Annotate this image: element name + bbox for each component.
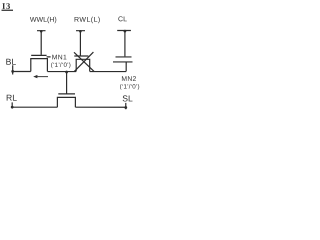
svg-text:RWL(L): RWL(L) xyxy=(74,17,101,24)
label leader to MN1 xyxy=(47,56,51,58)
svg-text:RL: RL xyxy=(6,93,17,103)
transistor (RWL) channel xyxy=(76,59,90,71)
write-current arrow head xyxy=(33,75,37,78)
write-current arrow shaft xyxy=(37,76,48,78)
svg-text:MN2: MN2 xyxy=(121,76,136,83)
wire WWL vertical xyxy=(40,31,42,55)
wire capacitor to storage node xyxy=(125,62,127,71)
figure label 13 underline xyxy=(2,9,13,11)
capacitor CL top plate xyxy=(116,56,132,58)
node storage/MN2 gate junction dot xyxy=(65,71,68,74)
terminal CL bar xyxy=(117,30,131,32)
node RL junction dot xyxy=(11,106,14,109)
wire RL horizontal xyxy=(12,106,57,108)
capacitor CL bottom plate xyxy=(113,61,132,63)
wire storage node left segment xyxy=(47,71,76,73)
wire CL vertical xyxy=(124,31,126,57)
terminal RWL bar xyxy=(76,30,85,32)
node SL junction dot xyxy=(124,106,127,109)
svg-text:SL: SL xyxy=(122,93,133,103)
wire BL horizontal xyxy=(13,71,31,73)
wire SL horizontal xyxy=(75,106,125,108)
svg-text:BL: BL xyxy=(6,57,17,67)
svg-text:MN1: MN1 xyxy=(52,54,67,61)
wire storage node right segment xyxy=(90,71,127,73)
transistor MN2 channel xyxy=(57,97,75,107)
terminal SL bar xyxy=(125,103,127,109)
node RWL junction dot xyxy=(79,30,82,33)
svg-text:I3: I3 xyxy=(2,1,11,11)
transistor MN1 channel xyxy=(31,59,48,72)
node BL junction dot xyxy=(11,70,14,73)
node CL junction dot xyxy=(124,30,127,33)
node WWL junction dot xyxy=(40,30,43,33)
wire RWL vertical xyxy=(79,31,81,56)
transistor MN1 gate bar xyxy=(31,54,46,56)
svg-text:(‘1’/‘0’): (‘1’/‘0’) xyxy=(51,62,71,69)
terminal RL bar xyxy=(11,102,13,108)
transistor MN2 gate bar xyxy=(58,93,75,95)
off-cross X over RWL transistor xyxy=(74,52,94,71)
terminal BL bar xyxy=(12,65,14,74)
transistor (RWL) gate bar xyxy=(74,55,88,57)
wire MN2 gate lead xyxy=(66,71,68,94)
svg-text:(‘1’/‘0’): (‘1’/‘0’) xyxy=(120,84,140,91)
svg-text:CL: CL xyxy=(118,16,127,23)
terminal WWL bar xyxy=(37,30,46,32)
svg-text:WWL(H): WWL(H) xyxy=(30,17,57,24)
